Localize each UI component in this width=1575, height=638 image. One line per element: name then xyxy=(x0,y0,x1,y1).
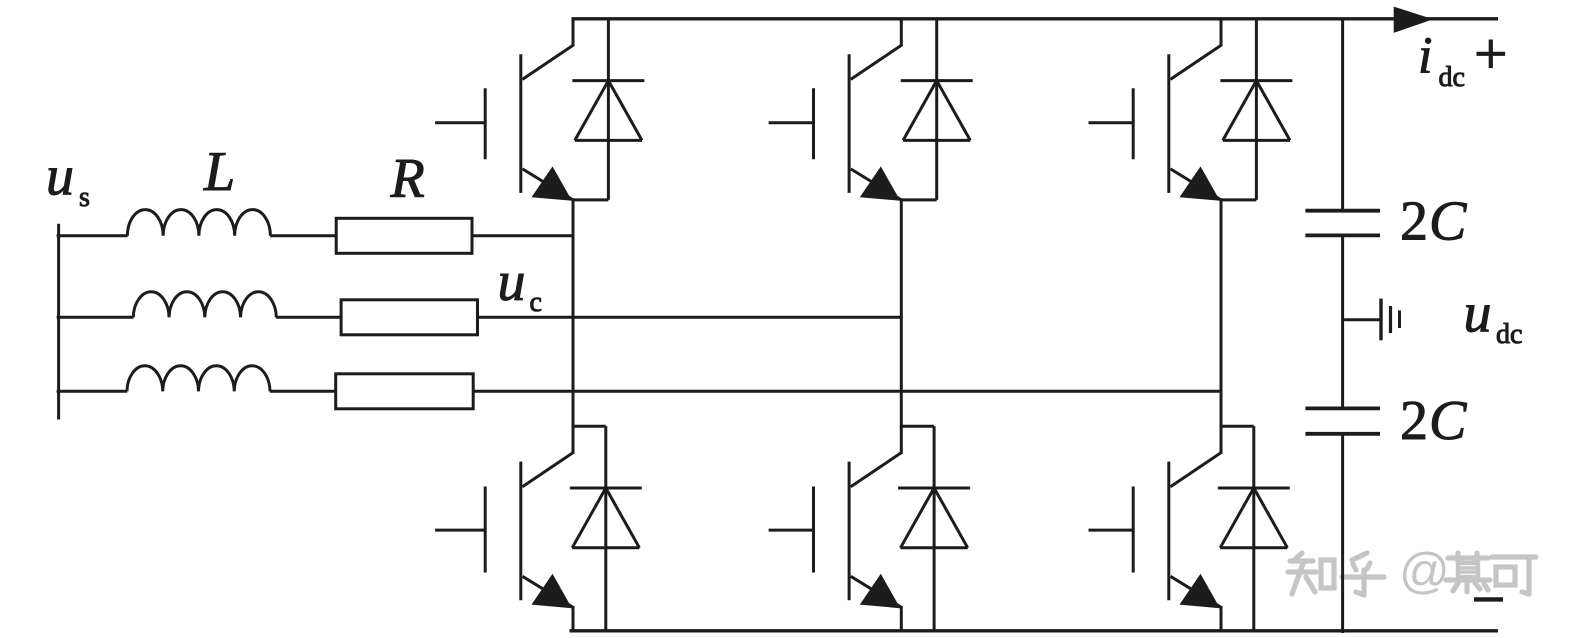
resistor R2 xyxy=(341,300,477,335)
wire L1 to R1 xyxy=(270,234,336,237)
diode D2 triangle xyxy=(903,81,970,141)
ground symbol xyxy=(1381,299,1400,341)
label u_s (source voltage) xyxy=(46,146,90,214)
wire C1 to C2 (DC midpoint) xyxy=(1341,235,1344,408)
IGBT Q4 body bar xyxy=(519,462,522,601)
label + (positive terminal) xyxy=(1477,40,1506,69)
diode D1 cathode wire xyxy=(607,19,610,81)
diode D1 triangle xyxy=(575,81,642,141)
diode D3 anode wire xyxy=(1255,81,1258,200)
svg-text:dc: dc xyxy=(1496,319,1522,350)
diode D3 cathode wire xyxy=(1255,19,1258,81)
IGBT Q4 collector lead xyxy=(522,426,574,487)
svg-text:C: C xyxy=(1429,390,1467,452)
IGBT Q5 collector lead xyxy=(851,426,903,487)
IGBT Q4 emitter lead with arrow xyxy=(522,574,573,608)
diode D4 anode wire xyxy=(604,488,607,631)
diode D4 cathode bar xyxy=(570,487,642,490)
wire phase-a from source to L1 xyxy=(57,234,128,237)
IGBT Q6 collector lead xyxy=(1170,426,1222,487)
label R xyxy=(390,147,425,209)
IGBT Q6 gate bar xyxy=(1132,487,1135,573)
wire leg3 bottom collector step xyxy=(1221,425,1254,428)
IGBT Q1 emitter lead with arrow xyxy=(522,166,573,200)
diode D6 anode wire xyxy=(1252,488,1255,631)
wire L3 to R3 xyxy=(270,390,336,393)
wire D1 anode to emitter node xyxy=(573,198,608,201)
diode D6 triangle xyxy=(1220,488,1287,548)
wire R1 to bridge leg1 node xyxy=(472,234,573,237)
IGBT Q1 gate lead wire xyxy=(435,121,485,124)
IGBT Q3 gate lead wire xyxy=(1089,121,1134,124)
diode D5 triangle xyxy=(901,488,968,548)
IGBT Q2 body bar xyxy=(848,54,851,193)
wire L2 to R2 xyxy=(276,316,341,319)
diode D4 triangle xyxy=(572,488,639,548)
svg-text:2: 2 xyxy=(1400,390,1428,452)
wire Q5 emitter to negative bus xyxy=(900,606,903,631)
arrow i_dc on positive bus xyxy=(1394,7,1433,33)
wire positive DC bus (top rail) xyxy=(572,17,1499,20)
diode D5 cathode bar xyxy=(898,487,970,490)
wire leg2 bottom collector step xyxy=(901,425,934,428)
wire leg1 bottom collector step xyxy=(573,425,606,428)
svg-text:C: C xyxy=(1429,190,1467,252)
svg-text:@: @ xyxy=(1399,543,1450,599)
diode D4 cathode wire xyxy=(604,426,607,488)
resistor R3 xyxy=(336,374,474,409)
wire R3 to bridge leg3 node xyxy=(473,390,1221,393)
wire D2 anode to emitter node xyxy=(901,198,936,201)
wire midpoint to ground xyxy=(1343,318,1381,321)
label - (negative terminal) xyxy=(1474,597,1503,601)
diode D1 anode wire xyxy=(607,81,610,200)
diode D5 cathode wire xyxy=(933,426,936,488)
diode D6 cathode wire xyxy=(1252,426,1255,488)
svg-text:u: u xyxy=(1464,283,1492,345)
inductor L1 xyxy=(127,210,270,236)
diode D3 triangle xyxy=(1223,81,1290,141)
inductor L2 xyxy=(133,292,276,318)
wire leg2 phase node vertical xyxy=(900,198,903,427)
wire negative DC bus (bottom rail) xyxy=(570,629,1499,632)
IGBT Q3 gate bar xyxy=(1132,88,1135,159)
IGBT Q5 gate lead wire xyxy=(769,529,814,532)
label L xyxy=(203,141,235,203)
wire Q4 emitter to negative bus xyxy=(572,606,575,631)
svg-text:dc: dc xyxy=(1439,62,1465,93)
diode D2 anode wire xyxy=(935,81,938,200)
IGBT Q4 gate lead wire xyxy=(435,529,485,532)
wire positive bus to capacitor C1 xyxy=(1341,19,1344,211)
IGBT Q5 gate bar xyxy=(812,487,815,573)
label u_c xyxy=(498,251,542,318)
IGBT Q6 emitter lead with arrow xyxy=(1170,574,1221,608)
wire Q6 emitter to negative bus xyxy=(1220,606,1223,631)
svg-text:R: R xyxy=(390,147,425,209)
diode D2 cathode bar xyxy=(901,79,973,82)
diode D6 cathode bar xyxy=(1218,487,1290,490)
wire leg3 phase node vertical xyxy=(1220,198,1223,427)
IGBT Q6 gate lead wire xyxy=(1089,529,1134,532)
IGBT Q5 emitter lead with arrow xyxy=(851,574,902,608)
IGBT Q3 body bar xyxy=(1167,54,1170,193)
svg-text:u: u xyxy=(46,146,74,208)
label u_dc xyxy=(1464,283,1523,351)
IGBT Q1 gate bar xyxy=(484,88,487,159)
IGBT Q1 collector lead xyxy=(522,19,574,80)
diode D3 cathode bar xyxy=(1220,79,1292,82)
svg-text:c: c xyxy=(530,287,542,318)
svg-text:s: s xyxy=(79,182,90,213)
diode D1 cathode bar xyxy=(572,79,644,82)
wire D3 anode to emitter node xyxy=(1221,198,1256,201)
label i_dc xyxy=(1418,27,1465,93)
IGBT Q2 gate lead wire xyxy=(769,121,814,124)
wire phase-b from source to L2 xyxy=(57,316,134,319)
svg-text:2: 2 xyxy=(1400,190,1428,252)
IGBT Q2 collector lead xyxy=(851,19,903,80)
watermark zhihu @muke xyxy=(1288,543,1536,599)
source bus vertical wire xyxy=(57,224,60,420)
IGBT Q2 gate bar xyxy=(812,88,815,159)
label 2C (upper capacitor) xyxy=(1400,190,1467,252)
inductor L3 xyxy=(127,366,270,392)
IGBT Q3 emitter lead with arrow xyxy=(1170,166,1221,200)
capacitor C1 plates xyxy=(1305,211,1380,236)
IGBT Q6 body bar xyxy=(1167,462,1170,601)
diode D2 cathode wire xyxy=(935,19,938,81)
IGBT Q1 body bar xyxy=(519,54,522,193)
resistor R1 xyxy=(336,218,472,253)
IGBT Q2 emitter lead with arrow xyxy=(851,166,902,200)
diode D5 anode wire xyxy=(933,488,936,631)
capacitor C2 plates xyxy=(1305,408,1380,433)
wire C2 to negative bus xyxy=(1341,434,1344,633)
IGBT Q3 collector lead xyxy=(1170,19,1222,80)
label 2C (lower capacitor) xyxy=(1400,390,1467,452)
svg-text:i: i xyxy=(1418,27,1432,84)
wire R2 to bridge leg2 node xyxy=(478,316,902,319)
wire phase-c from source to L3 xyxy=(57,390,128,393)
IGBT Q5 body bar xyxy=(848,462,851,601)
svg-text:u: u xyxy=(498,251,526,313)
IGBT Q4 gate bar xyxy=(484,487,487,573)
svg-text:L: L xyxy=(203,141,235,203)
wire leg1 phase node vertical xyxy=(572,198,575,427)
